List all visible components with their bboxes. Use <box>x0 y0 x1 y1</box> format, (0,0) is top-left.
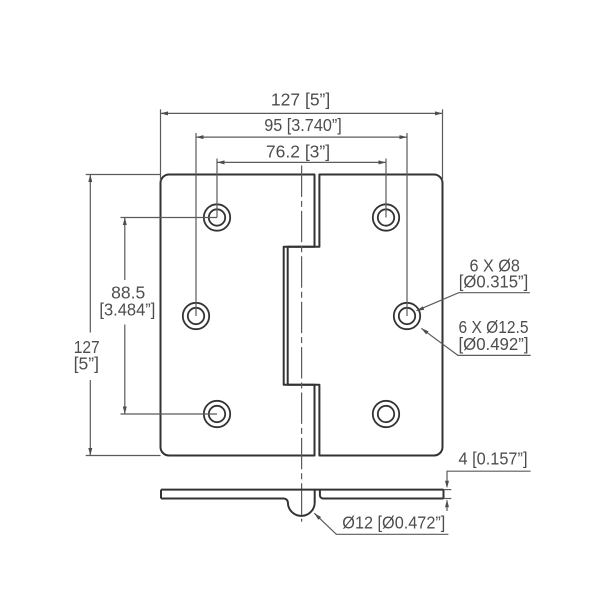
hole bottom-right inner circle <box>378 406 394 422</box>
arrow right of 95 <box>400 135 408 139</box>
extension line thickness top <box>444 489 452 491</box>
extension line 76.2 right (from top-right hole) <box>385 159 387 218</box>
extension line 88.5 top (from top-left hole center) <box>121 217 218 219</box>
extension line left 127 top (collinear with plate top edge) <box>86 174 161 176</box>
svg-text:76.2 [3”]: 76.2 [3”] <box>266 141 330 161</box>
dimension line 127 top <box>161 112 443 114</box>
arrow right of 76.2 <box>379 160 387 164</box>
hole mid-right inner circle <box>399 308 415 324</box>
arrow left of 127 top <box>161 111 169 115</box>
extension line top 127 left <box>160 109 162 181</box>
side view right end cap <box>443 490 445 499</box>
arrow left of 76.2 <box>217 160 225 164</box>
leader line for 6 X O8 <box>417 293 530 311</box>
extension line 76.2 left (from top-left hole) <box>216 159 218 218</box>
hole top-right inner circle <box>378 209 394 225</box>
hole bottom-left inner circle <box>209 406 225 422</box>
svg-text:[Ø0.492”]: [Ø0.492”] <box>459 334 529 354</box>
extension line 95 right (from mid-right hole) <box>406 133 408 316</box>
side view right leaf bottom line <box>320 490 444 499</box>
side view top surface line <box>161 489 444 491</box>
arrow top of 127 left <box>88 175 92 183</box>
dimension line 127 left (broken for text) <box>89 175 91 333</box>
extension line 95 left (from mid-left hole) <box>195 133 197 316</box>
svg-text:[Ø0.315”]: [Ø0.315”] <box>459 272 529 292</box>
hole bottom-left outer circle <box>204 401 230 427</box>
arrow top of 88.5 <box>123 218 127 226</box>
center line (pin axis, dash-dot) <box>301 166 303 522</box>
arrow up at strip bottom <box>445 500 449 508</box>
hinge left leaf outline <box>161 175 315 456</box>
extension line top 127 right <box>442 109 444 181</box>
svg-text:4 [0.157”]: 4 [0.157”] <box>459 448 528 468</box>
dimension line 76.2 <box>217 161 386 163</box>
hole bottom-right outer circle <box>373 401 399 427</box>
side view left end cap <box>160 490 162 499</box>
arrow left of 95 <box>196 135 204 139</box>
arrow down at strip top <box>445 481 449 489</box>
extension line left 127 bottom <box>86 455 161 457</box>
hole mid-left outer circle <box>183 303 209 329</box>
hole top-left outer circle <box>204 204 230 230</box>
svg-text:127 [5”]: 127 [5”] <box>271 90 330 110</box>
hole top-left inner circle <box>209 209 225 225</box>
arrow right of 127 top <box>435 111 443 115</box>
side view left leaf bottom line with knuckle curl bump <box>161 490 315 516</box>
hole mid-left inner circle <box>188 308 204 324</box>
extension line thickness bottom <box>444 498 452 500</box>
leader arrow for 6 X O12.5 <box>421 328 428 334</box>
hole top-right outer circle <box>373 204 399 230</box>
leader arrow for O12 pin <box>314 513 321 520</box>
leader arrow for 6 X O8 <box>417 306 425 311</box>
arrow bottom of 127 left <box>88 448 92 456</box>
svg-text:[3.484”]: [3.484”] <box>99 300 155 320</box>
arrow up at strip bottom stem <box>446 500 448 511</box>
svg-text:Ø12 [Ø0.472”]: Ø12 [Ø0.472”] <box>342 512 445 532</box>
arrow bottom of 88.5 <box>123 407 127 415</box>
extension line 88.5 bottom (from bottom-left hole center) <box>121 413 218 415</box>
svg-text:[5”]: [5”] <box>74 354 99 374</box>
leader line for 6 X O12.5 <box>421 328 530 355</box>
dimension line 88.5 (broken for text) <box>124 218 126 281</box>
leader line for O12 pin <box>314 513 448 534</box>
dimension line 95 <box>196 136 407 138</box>
hole mid-right outer circle <box>394 303 420 329</box>
leader line for 4 [0.157"] <box>447 471 531 486</box>
hinge right leaf outline <box>288 175 443 456</box>
svg-text:95 [3.740”]: 95 [3.740”] <box>264 115 342 135</box>
